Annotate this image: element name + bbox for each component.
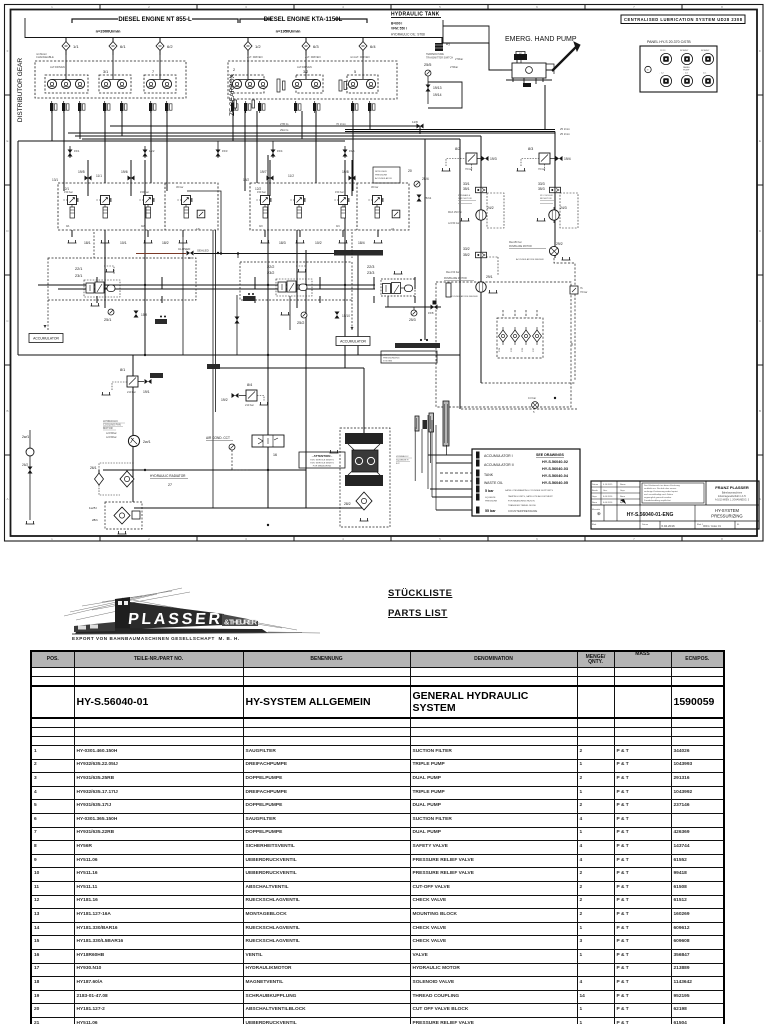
svg-text:15/9: 15/9 [141,313,147,317]
svg-text:7: 7 [152,70,154,74]
svg-text:13/2: 13/2 [243,178,249,182]
svg-text:Bearb.: Bearb. [592,489,599,492]
svg-text:HYDRAULIC OIL: ST68: HYDRAULIC OIL: ST68 [391,33,425,37]
svg-text:Datum: Datum [592,483,598,486]
svg-text:150 bar: 150 bar [140,190,149,194]
svg-text:⊕: ⊕ [597,511,601,516]
svg-text:6.04.2016: 6.04.2016 [661,524,675,528]
svg-text:0.3 bar: 0.3 bar [528,396,536,400]
svg-text:DIESEL ENGINE NT 855-L: DIESEL ENGINE NT 855-L [118,17,192,23]
svg-text:B: B [759,409,761,413]
svg-text:15/11: 15/11 [424,196,432,200]
svg-text:14→: 14→ [703,73,708,75]
svg-text:vorherige Zustimmung weder kop: vorherige Zustimmung weder kopiert [644,490,678,493]
svg-text:C: C [759,319,762,323]
svg-text:55 bar: 55 bar [485,509,496,513]
svg-text:6/3: 6/3 [313,44,319,49]
svg-text:ACCUMULATOR: ACCUMULATOR [375,177,392,180]
svg-text:n=1950U/min: n=1950U/min [276,29,301,34]
svg-text:A: A [6,497,8,501]
svg-text:TAMPING UNITS, SATELLITE ADJUS: TAMPING UNITS, SATELLITE ADJUSTMENT [508,495,553,498]
svg-text:HYDRAULIC: HYDRAULIC [383,354,396,357]
svg-text:SEE DRAWINGS: SEE DRAWINGS [536,453,565,457]
svg-text:210 bar: 210 bar [127,390,136,394]
svg-text:SEALED: SEALED [197,249,210,253]
svg-text:2/1: 2/1 [391,227,395,231]
svg-text:9/4: 9/4 [336,224,340,228]
svg-text:15/10: 15/10 [342,314,350,318]
svg-text:Industriegesellschaft m.b.H.: Industriegesellschaft m.b.H. [718,495,747,498]
svg-text:23/1: 23/1 [75,274,82,278]
svg-text:A-1010 WIEN 1, JOHANNESG. 3: A-1010 WIEN 1, JOHANNESG. 3 [715,499,750,502]
svg-text:C: C [6,319,9,323]
svg-text:5: 5 [533,410,535,414]
svg-text:2: 2 [233,68,235,72]
svg-text:Bl.: Bl. [737,524,740,526]
svg-text:19/2: 19/2 [221,398,228,402]
svg-text:4: 4 [342,537,344,541]
svg-text:ACCUMULATOR I: ACCUMULATOR I [484,454,513,458]
svg-text:CHANGEABLE: CHANGEABLE [36,55,54,59]
svg-text:HY-S.56040-03: HY-S.56040-03 [542,467,568,471]
svg-text:PRESSURIZING: PRESSURIZING [711,514,742,519]
svg-text:13/1: 13/1 [52,178,58,182]
svg-text:TWO SERVICE INSETS: TWO SERVICE INSETS [310,460,334,462]
svg-text:F: F [759,49,761,53]
svg-text:6: 6 [536,537,538,541]
svg-text:29/1: 29/1 [486,275,493,279]
svg-text:COUNTERPRESSURE: COUNTERPRESSURE [508,509,537,513]
svg-text:w=150bar: w=150bar [106,436,117,439]
svg-text:PAN/BLADE MOTOR: PAN/BLADE MOTOR [509,245,532,248]
svg-text:DIFF MOTOR: DIFF MOTOR [458,198,472,200]
svg-text:SQUEEZE P.: SQUEEZE P. [396,460,409,462]
svg-text:N: N [647,70,649,72]
svg-text:15/4: 15/4 [277,149,283,153]
svg-text:33/3: 33/3 [538,182,545,186]
svg-text:6: 6 [536,5,538,9]
svg-text:INTERAXLE: INTERAXLE [458,194,471,197]
svg-text:noch vervielfaeltigt noch Drit: noch vervielfaeltigt noch Dritten [644,493,674,496]
svg-text:8: 8 [721,5,723,9]
svg-text:ALT. DRIVEN: ALT. DRIVEN [305,55,321,59]
svg-text:19/6: 19/6 [121,170,128,174]
svg-text:0001 / Index 01: 0001 / Index 01 [703,524,721,528]
svg-text:D: D [6,229,9,233]
svg-text:3: 3 [245,5,247,9]
svg-text:26/1: 26/1 [90,466,97,470]
svg-text:3: 3 [245,537,247,541]
svg-text:& THEURER: & THEURER [224,618,258,627]
svg-text:22/1: 22/1 [75,267,82,271]
svg-text:- ATTENTION -: - ATTENTION - [312,454,333,458]
svg-text:10/2: 10/2 [315,241,322,245]
svg-text:19/5: 19/5 [78,170,85,174]
svg-text:25/5: 25/5 [424,63,431,67]
svg-text:28/1: 28/1 [92,518,98,522]
svg-text:25/2: 25/2 [297,321,304,325]
svg-text:23/4: 23/4 [499,347,501,352]
svg-text:Gepr.: Gepr. [592,495,598,498]
svg-text:SYSTEM: SYSTEM [383,361,392,363]
svg-text:27B l/s: 27B l/s [280,122,289,126]
svg-text:70 bar: 70 bar [538,167,545,171]
svg-text:9/1: 9/1 [66,224,70,228]
svg-text:25 l/min: 25 l/min [560,127,570,131]
svg-text:30 bar: 30 bar [176,185,183,189]
svg-text:7: 7 [633,5,635,9]
svg-text:Max150 bar: Max150 bar [509,241,522,244]
svg-text:HYDRAULIC: HYDRAULIC [396,455,409,458]
svg-text:11/1: 11/1 [96,174,102,178]
svg-text:76 bar: 76 bar [580,290,587,294]
svg-text:PRESSURIZING: PRESSURIZING [383,358,400,360]
svg-text:18/2: 18/2 [162,241,169,245]
svg-text:35/3: 35/3 [538,187,545,191]
svg-text:8/1: 8/1 [120,368,125,372]
svg-text:35/1: 35/1 [463,187,470,191]
svg-text:10/1: 10/1 [120,241,127,245]
svg-text:7: 7 [633,537,635,541]
svg-text:AIR COND. CCT: AIR COND. CCT [206,436,230,440]
svg-text:Zuwiderhandlung verpflichtet: Zuwiderhandlung verpflichtet [644,499,671,502]
svg-text:5: 5 [439,537,441,541]
svg-text:2w/1: 2w/1 [22,435,29,439]
svg-text:EMERG. HAND PUMP: EMERG. HAND PUMP [505,36,577,43]
svg-text:mit ALT. DRIVEN: mit ALT. DRIVEN [350,55,370,59]
svg-text:HYDRAULIC: HYDRAULIC [103,419,118,423]
svg-text:1/1: 1/1 [73,44,79,49]
svg-text:18/4: 18/4 [358,241,365,245]
svg-text:←12: ←12 [659,73,664,75]
svg-text:w): w) [446,42,450,46]
svg-text:19/3: 19/3 [490,157,497,161]
svg-text:36: 36 [570,342,574,346]
svg-text:HY-SYSTEM: HY-SYSTEM [715,508,740,513]
svg-text:RF MOTOR: RF MOTOR [540,198,552,200]
svg-text:6.10.2015: 6.10.2015 [603,484,613,486]
svg-text:Gez.: Gez. [603,490,608,492]
svg-text:19/1: 19/1 [143,390,150,394]
svg-text:w): w) [519,51,522,55]
svg-text:Norm: Norm [592,501,597,504]
svg-text:Das Urheberrecht an dieser Zei: Das Urheberrecht an dieser Zeichnung [644,484,681,487]
svg-text:24/3: 24/3 [560,206,567,210]
svg-text:6/1: 6/1 [120,44,126,49]
svg-text:Max.150 bar: Max.150 bar [446,271,459,274]
svg-text:CENTRALISED LUBRICATION SYSTEM: CENTRALISED LUBRICATION SYSTEM UD28 2308 [624,17,743,22]
svg-text:270bar: 270bar [450,65,458,69]
svg-text:ALT.DRIVEN: ALT.DRIVEN [297,65,312,69]
svg-text:MAX.150 bar: MAX.150 bar [448,211,462,214]
svg-text:B.P.: B.P. [396,463,400,465]
svg-text:6.04.2016: 6.04.2016 [603,502,613,504]
svg-text:E: E [759,139,761,143]
svg-text:19/7: 19/7 [260,170,267,174]
svg-text:70 bar: 70 bar [465,167,472,171]
svg-text:F: F [7,49,9,53]
svg-text:Gepr.: Gepr. [620,489,626,492]
svg-text:TANK: TANK [484,473,494,477]
svg-text:ZF COOLER: ZF COOLER [540,195,553,197]
svg-text:DISTRIBUTOR GEAR: DISTRIBUTOR GEAR [17,58,24,122]
svg-text:9/2: 9/2 [141,224,145,228]
svg-text:ROB/HY: ROB/HY [680,50,689,52]
svg-text:15/1: 15/1 [74,149,80,153]
svg-text:15/8: 15/8 [428,311,434,315]
svg-text:ALT. DRIVEN: ALT. DRIVEN [247,55,263,59]
svg-text:1: 1 [51,5,53,9]
svg-text:2w/1: 2w/1 [143,440,151,444]
svg-text:27: 27 [168,483,172,487]
svg-text:w=150bar: w=150bar [106,432,117,435]
svg-text:8/4: 8/4 [247,383,252,387]
svg-text:11/8: 11/8 [412,120,418,124]
svg-text:15/5: 15/5 [349,149,355,153]
svg-text:5: 5 [354,70,356,74]
svg-text:TRANSMITTER SWITCH: TRANSMITTER SWITCH [426,57,453,60]
svg-text:Norm: Norm [620,495,625,498]
svg-text:4: 4 [342,5,344,9]
svg-text:SQUEEZE: SQUEEZE [485,497,496,499]
svg-text:7k: 7k [580,286,583,290]
svg-text:30 bar: 30 bar [371,185,378,189]
svg-text:5: 5 [439,5,441,9]
svg-text:←13: ←13 [683,73,688,75]
svg-text:9/3: 9/3 [259,224,263,228]
svg-text:zugaenglich gemacht werden.: zugaenglich gemacht werden. [644,496,672,499]
svg-text:26/2: 26/2 [22,463,28,467]
svg-text:verbleibt uns. Sie darf ohne u: verbleibt uns. Sie darf ohne unsere [644,487,677,490]
svg-text:D: D [759,229,762,233]
svg-text:22/2: 22/2 [267,265,274,269]
svg-text:70 l/min: 70 l/min [336,122,346,126]
svg-text:23/6: 23/6 [522,347,524,352]
svg-text:29/2: 29/2 [556,242,563,246]
svg-text:150 bar: 150 bar [335,190,344,194]
svg-text:6.04.2016: 6.04.2016 [603,496,613,498]
svg-text:FOR MEASURING: FOR MEASURING [313,465,332,468]
svg-text:25/4: 25/4 [422,177,429,181]
svg-text:TWO SERVICE INSETS: TWO SERVICE INSETS [310,463,334,465]
svg-text:29A l/s: 29A l/s [280,128,289,132]
svg-text:23/3: 23/3 [367,271,374,275]
svg-text:PUMP: PUMP [683,70,690,72]
svg-text:2: 2 [148,5,150,9]
svg-text:Blatt: Blatt [592,523,597,526]
svg-text:150 bar: 150 bar [64,190,73,194]
svg-text:11/13: 11/13 [660,50,666,52]
svg-text:19/4: 19/4 [564,157,571,161]
svg-text:TRANSFER TRAVEL MODE: TRANSFER TRAVEL MODE [508,504,536,507]
svg-text:1: 1 [51,537,53,541]
svg-text:Name: Name [620,484,626,486]
svg-text:Datum: Datum [642,523,648,526]
svg-text:5 bar: 5 bar [485,489,494,493]
svg-text:B: B [6,409,8,413]
svg-text:3/1: 3/1 [103,70,108,74]
svg-text:270bar: 270bar [455,57,463,61]
svg-text:210 bar: 210 bar [245,403,254,407]
svg-text:11/2: 11/2 [288,174,294,178]
svg-text:33/1: 33/1 [463,182,470,186]
svg-text:25/3: 25/3 [409,318,416,322]
svg-text:CLOSED: CLOSED [178,247,191,251]
svg-text:25/1: 25/1 [104,318,111,322]
svg-text:SATELLITES/RAMPING CYLINDER SU: SATELLITES/RAMPING CYLINDER SUPPORTS [505,489,553,492]
svg-text:HYDRAULIC RADIATOR: HYDRAULIC RADIATOR [150,474,186,478]
svg-text:23/7: 23/7 [533,347,535,352]
svg-text:2: 2 [148,537,150,541]
svg-text:PRESSURE: PRESSURE [375,175,388,177]
svg-text:WASTE OIL: WASTE OIL [484,481,503,485]
svg-text:19/14: 19/14 [433,93,442,97]
svg-text:23/2: 23/2 [267,271,274,275]
svg-text:HY-S.56040-02: HY-S.56040-02 [542,460,568,464]
svg-text:FRANZ PLASSER: FRANZ PLASSER [715,485,749,490]
svg-text:18/1: 18/1 [84,241,91,245]
svg-text:ACCUMULATOR II: ACCUMULATOR II [484,463,514,467]
svg-text:1x25 l: 1x25 l [89,506,97,510]
svg-text:18/3: 18/3 [279,241,286,245]
svg-text:25 l/min: 25 l/min [560,132,570,136]
svg-text:n=2000U/min: n=2000U/min [96,29,121,34]
svg-text:3/2: 3/2 [303,70,308,74]
svg-text:19/8: 19/8 [342,170,349,174]
svg-text:HYDRAULIC TANK: HYDRAULIC TANK [391,12,440,18]
svg-text:FOR MEASURING RUN IN: FOR MEASURING RUN IN [508,500,535,503]
svg-text:20: 20 [408,169,412,173]
svg-text:8: 8 [721,537,723,541]
svg-text:Bahnbaumaschinen: Bahnbaumaschinen [722,493,743,495]
svg-text:PAN/BLADE MOTOR: PAN/BLADE MOTOR [444,277,467,280]
svg-text:ACCUMULATORS FEEDER: ACCUMULATORS FEEDER [516,258,544,261]
svg-text:28/2: 28/2 [344,502,351,506]
svg-text:VFM: 550 l: VFM: 550 l [391,27,407,31]
svg-text:8/2: 8/2 [455,147,460,151]
svg-text:8/3: 8/3 [528,147,533,151]
svg-text:B=600 l: B=600 l [391,22,402,26]
svg-text:24/2: 24/2 [487,206,494,210]
svg-text:6/4: 6/4 [370,44,376,49]
svg-text:150 bar: 150 bar [257,190,266,194]
svg-text:15/2: 15/2 [149,149,155,153]
svg-text:22/3: 22/3 [367,265,374,269]
svg-text:19/13: 19/13 [433,86,442,90]
svg-text:E: E [6,139,8,143]
svg-text:HY-S.56040-05: HY-S.56040-05 [542,481,568,485]
svg-text:HY-S.56040-04: HY-S.56040-04 [542,474,569,478]
svg-text:w=150 bar: w=150 bar [448,222,459,225]
svg-text:1/2: 1/2 [255,44,261,49]
svg-text:35/2: 35/2 [463,253,470,257]
svg-text:ALT.DRIVEN: ALT.DRIVEN [50,65,65,69]
svg-text:PANEL HY-S 20.370 C/07B: PANEL HY-S 20.370 C/07B [647,40,691,44]
svg-text:16: 16 [273,453,277,457]
svg-text:33/2: 33/2 [463,247,470,251]
svg-text:NITROGEN: NITROGEN [375,171,387,173]
svg-text:HY-S.56040-01-ENG: HY-S.56040-01-ENG [627,512,674,518]
svg-text:15/3: 15/3 [222,149,228,153]
svg-text:PRESSURE: PRESSURE [485,501,498,503]
svg-text:ACCUMULATORS FEEDER: ACCUMULATORS FEEDER [450,295,478,298]
svg-text:1/8: 1/8 [196,227,200,231]
svg-text:DIESEL ENGINE KTA-1150L: DIESEL ENGINE KTA-1150L [264,17,343,23]
svg-text:23/5: 23/5 [511,347,513,352]
svg-text:6/2: 6/2 [167,44,173,49]
svg-text:ROB/HY: ROB/HY [701,50,710,52]
